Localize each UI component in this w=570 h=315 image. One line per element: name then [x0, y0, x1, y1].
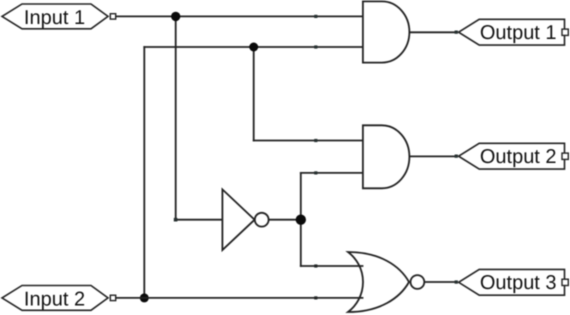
svg-text:Output 1: Output 1	[480, 22, 557, 44]
svg-text:Output 2: Output 2	[480, 146, 557, 168]
svg-text:Input 2: Input 2	[24, 288, 85, 310]
svg-text:Output 3: Output 3	[480, 272, 557, 294]
svg-text:Input 1: Input 1	[24, 7, 85, 29]
